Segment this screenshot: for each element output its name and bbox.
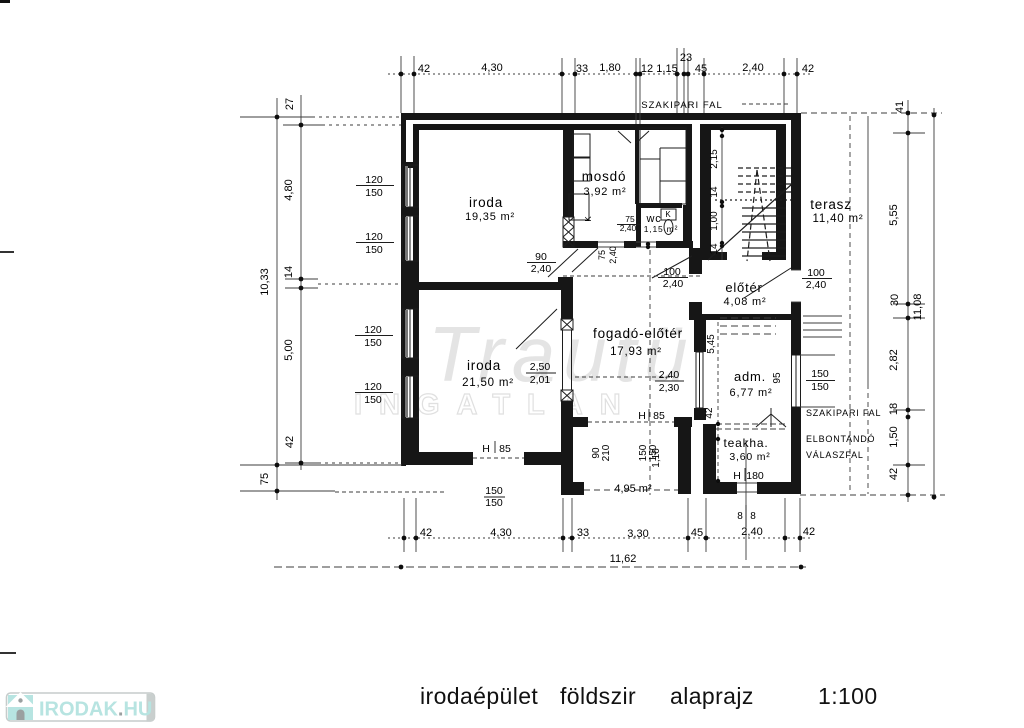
svg-text:2,15: 2,15 <box>709 149 720 169</box>
svg-text:mosdó: mosdó <box>582 169 627 184</box>
svg-text:11,08: 11,08 <box>912 294 924 321</box>
svg-text:45: 45 <box>691 527 703 539</box>
svg-text:23: 23 <box>680 52 692 64</box>
svg-text:alaprajz: alaprajz <box>670 683 754 709</box>
svg-text:2,40: 2,40 <box>742 62 763 74</box>
svg-text:4,80: 4,80 <box>283 179 295 200</box>
svg-text:előtér: előtér <box>725 280 762 295</box>
svg-text:SZAKIPARI FAL: SZAKIPARI FAL <box>641 100 722 111</box>
svg-text:5,45: 5,45 <box>706 334 717 354</box>
svg-text:10,33: 10,33 <box>259 268 271 296</box>
svg-text:100: 100 <box>807 267 825 279</box>
svg-text:90: 90 <box>535 251 547 263</box>
svg-text:1:100: 1:100 <box>818 683 878 709</box>
svg-text:K: K <box>665 210 671 219</box>
svg-text:120: 120 <box>365 231 383 243</box>
svg-text:42: 42 <box>802 63 814 75</box>
svg-text:5,55: 5,55 <box>888 204 900 225</box>
svg-text:4,08 m²: 4,08 m² <box>724 296 767 308</box>
svg-text:42: 42 <box>803 526 815 538</box>
svg-text:11,62: 11,62 <box>610 553 637 565</box>
svg-text:150: 150 <box>485 485 503 497</box>
svg-text:2,40: 2,40 <box>659 369 680 381</box>
svg-text:8: 8 <box>737 511 743 522</box>
svg-text:IRODAK.HU: IRODAK.HU <box>39 699 152 721</box>
svg-text:150: 150 <box>365 244 383 256</box>
svg-text:H: H <box>638 410 646 422</box>
svg-text:4,95 m²: 4,95 m² <box>614 483 652 495</box>
svg-text:8: 8 <box>750 511 756 522</box>
svg-text:85: 85 <box>653 410 665 422</box>
svg-text:1,00: 1,00 <box>709 211 720 231</box>
svg-text:terasz: terasz <box>810 197 852 212</box>
svg-text:75: 75 <box>259 473 271 485</box>
svg-text:210: 210 <box>601 444 612 461</box>
svg-text:18: 18 <box>888 403 900 415</box>
svg-text:3,60 m²: 3,60 m² <box>729 451 770 463</box>
svg-text:VÁLASZFAL: VÁLASZFAL <box>806 450 864 460</box>
svg-text:1,50: 1,50 <box>888 426 900 447</box>
svg-text:2,40: 2,40 <box>663 278 684 290</box>
svg-text:irodaépület: irodaépület <box>420 683 538 709</box>
svg-text:150: 150 <box>364 394 382 406</box>
svg-text:42: 42 <box>284 436 296 448</box>
svg-text:H: H <box>482 443 490 455</box>
svg-text:12: 12 <box>641 63 653 75</box>
svg-text:6,77 m²: 6,77 m² <box>730 387 773 399</box>
svg-text:150: 150 <box>364 337 382 349</box>
svg-text:27: 27 <box>284 98 296 110</box>
svg-text:150: 150 <box>485 497 503 509</box>
svg-text:2,40: 2,40 <box>620 223 637 233</box>
svg-text:fogadó-előtér: fogadó-előtér <box>593 326 683 341</box>
svg-text:150: 150 <box>648 444 659 461</box>
svg-text:95: 95 <box>772 372 783 384</box>
svg-text:iroda: iroda <box>469 195 503 210</box>
svg-text:42: 42 <box>888 468 900 480</box>
svg-text:120: 120 <box>364 381 382 393</box>
svg-text:14: 14 <box>283 266 295 278</box>
svg-text:3,92 m²: 3,92 m² <box>584 186 627 198</box>
svg-text:SZAKIPARI FAL: SZAKIPARI FAL <box>806 408 881 418</box>
svg-text:14: 14 <box>709 243 720 255</box>
svg-text:33: 33 <box>576 63 588 75</box>
svg-text:ELBONTANDÓ: ELBONTANDÓ <box>806 434 875 444</box>
svg-text:INGATLAN: INGATLAN <box>354 389 638 421</box>
svg-text:2,40: 2,40 <box>741 526 762 538</box>
svg-text:150: 150 <box>811 381 829 393</box>
svg-text:30: 30 <box>889 294 901 306</box>
svg-text:1,80: 1,80 <box>599 62 620 74</box>
svg-text:45: 45 <box>695 63 707 75</box>
svg-text:H: H <box>733 470 741 482</box>
svg-text:adm.: adm. <box>734 369 766 384</box>
svg-text:33: 33 <box>577 527 589 539</box>
svg-text:iroda: iroda <box>467 358 501 373</box>
svg-text:2,30: 2,30 <box>659 382 680 394</box>
svg-text:2,50: 2,50 <box>530 361 551 373</box>
svg-text:100: 100 <box>663 266 681 278</box>
svg-text:5,00: 5,00 <box>283 339 295 360</box>
svg-text:1,15 m²: 1,15 m² <box>644 224 678 234</box>
svg-text:11,40 m²: 11,40 m² <box>813 213 864 225</box>
svg-text:150: 150 <box>365 187 383 199</box>
svg-text:180: 180 <box>746 470 764 482</box>
svg-text:1,15: 1,15 <box>656 63 677 75</box>
svg-text:14: 14 <box>709 186 720 198</box>
svg-text:75: 75 <box>597 250 607 260</box>
svg-text:4,30: 4,30 <box>481 62 502 74</box>
svg-text:17,93 m²: 17,93 m² <box>610 346 662 358</box>
svg-text:21,50 m²: 21,50 m² <box>462 377 514 389</box>
svg-text:2,40: 2,40 <box>806 279 827 291</box>
svg-text:42: 42 <box>704 407 715 419</box>
svg-text:teakha.: teakha. <box>724 436 769 450</box>
svg-text:42: 42 <box>420 527 432 539</box>
svg-text:85: 85 <box>499 443 511 455</box>
svg-text:K: K <box>584 216 593 222</box>
svg-text:2,40: 2,40 <box>608 246 618 264</box>
svg-text:120: 120 <box>365 174 383 186</box>
svg-text:41: 41 <box>894 101 906 113</box>
svg-text:4,30: 4,30 <box>490 527 511 539</box>
svg-text:120: 120 <box>364 324 382 336</box>
svg-text:földszir: földszir <box>560 683 636 709</box>
svg-text:2,40: 2,40 <box>531 263 552 275</box>
svg-text:150: 150 <box>811 368 829 380</box>
svg-text:19,35 m²: 19,35 m² <box>465 211 515 223</box>
svg-text:42: 42 <box>418 63 430 75</box>
svg-text:2,82: 2,82 <box>888 349 900 370</box>
svg-text:2,01: 2,01 <box>530 374 551 386</box>
svg-text:3,30: 3,30 <box>627 528 648 540</box>
